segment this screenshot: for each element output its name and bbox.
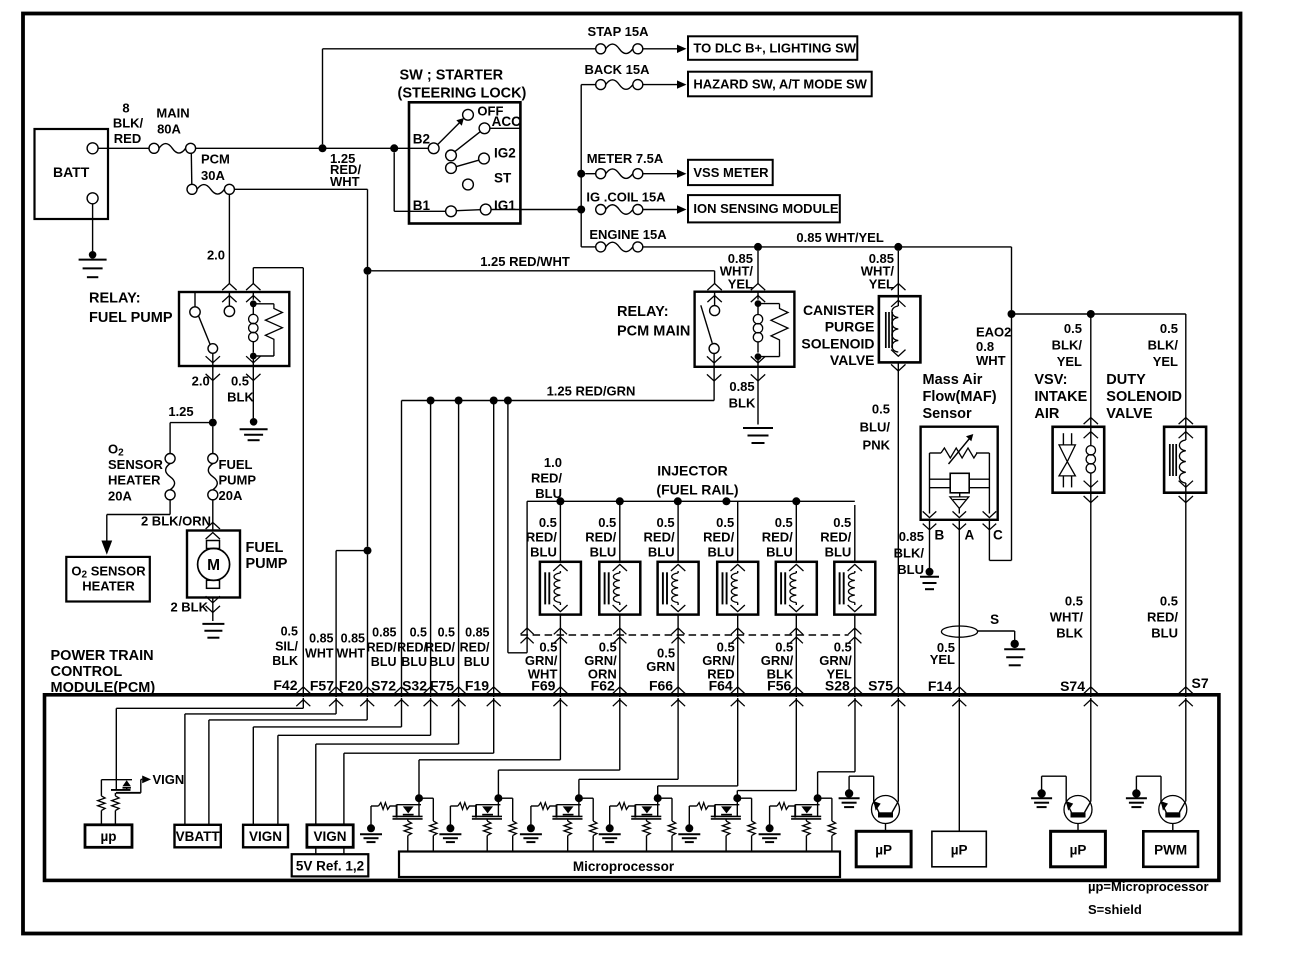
wire F75 to VIGN 2 xyxy=(458,698,460,744)
wire injector 4 feed xyxy=(737,501,739,562)
S7 output transistor base wire xyxy=(1172,824,1174,832)
VSV valve symbol xyxy=(1062,433,1064,445)
fuse BACK 15A xyxy=(581,84,596,86)
ground PCM MAIN relay xyxy=(743,427,773,429)
wire shield to ground xyxy=(978,630,1015,632)
box VBATT xyxy=(175,825,221,848)
svg-text:WHT: WHT xyxy=(305,647,334,661)
wire injector 5 feed xyxy=(795,501,797,562)
fuse METER 7.5A xyxy=(585,173,596,175)
node injector rail xyxy=(556,497,564,505)
node B1 branch xyxy=(390,144,398,152)
wire injector 6 to PCM xyxy=(854,615,856,697)
svg-text:Mass Air: Mass Air xyxy=(923,372,983,388)
wire to PCM MAIN relay coil xyxy=(757,251,759,284)
svg-text:RED/: RED/ xyxy=(526,530,557,545)
box Microprocessor xyxy=(399,852,840,878)
fuse PCM 30A xyxy=(187,184,197,194)
svg-text:RED/: RED/ xyxy=(820,530,851,545)
svg-text:VIGN: VIGN xyxy=(249,829,282,844)
relay switch common contact xyxy=(228,292,230,306)
svg-text:2.0: 2.0 xyxy=(192,374,210,389)
S75 output transistor base wire xyxy=(885,824,887,832)
svg-text:WHT: WHT xyxy=(976,353,1006,368)
node S32 dropper xyxy=(427,397,435,405)
svg-text:RELAY:: RELAY: xyxy=(89,291,141,307)
wire canister to S75 0.5 BLU/PNK xyxy=(897,362,899,697)
svg-text:FUEL: FUEL xyxy=(246,540,284,556)
svg-text:SOLENOID: SOLENOID xyxy=(1106,389,1182,405)
svg-text:20A: 20A xyxy=(108,489,132,504)
wire relay coil to ground xyxy=(252,366,254,418)
wire 1.0 RED/BLU rail feed xyxy=(507,401,509,653)
svg-text:S74: S74 xyxy=(1060,678,1085,694)
svg-text:µp=Microprocessor: µp=Microprocessor xyxy=(1088,879,1209,894)
svg-text:PNK: PNK xyxy=(863,438,891,453)
wire F19 dropper xyxy=(493,401,495,698)
svg-text:0.5: 0.5 xyxy=(410,626,427,640)
MAF sensor box xyxy=(921,427,998,520)
wire S28 to injector driver 6 xyxy=(854,698,856,772)
wire to STAP fuse xyxy=(322,49,324,145)
svg-text:DUTY: DUTY xyxy=(1106,372,1146,388)
svg-text:IG .COIL 15A: IG .COIL 15A xyxy=(586,190,666,205)
svg-text:WHT: WHT xyxy=(337,647,366,661)
svg-text:EAO2: EAO2 xyxy=(976,325,1011,340)
svg-text:20A: 20A xyxy=(219,488,243,503)
PCM connector chevrons xyxy=(296,687,310,694)
supply transistor bars xyxy=(111,789,131,791)
svg-text:WHT: WHT xyxy=(330,174,360,189)
blade to IG2 xyxy=(456,160,478,166)
source resistor driver 2 xyxy=(486,819,488,821)
VSV box xyxy=(1053,427,1105,493)
svg-text:IG1: IG1 xyxy=(494,198,516,213)
arrow to O2 sensor heater xyxy=(101,541,112,555)
svg-text:0.5: 0.5 xyxy=(1064,321,1082,336)
wire injector 3 to PCM xyxy=(677,615,679,697)
svg-text:ACC: ACC xyxy=(492,114,521,129)
svg-text:BLU: BLU xyxy=(648,544,675,559)
wire BATT to MAIN fuse, 8 BLK/RED xyxy=(98,147,149,149)
svg-text:µP: µP xyxy=(875,843,892,858)
svg-text:8: 8 xyxy=(122,101,129,116)
wire MAIN fuse to PCM fuse xyxy=(190,153,193,185)
svg-text:Microprocessor: Microprocessor xyxy=(573,859,675,874)
MOSFET Q4 body xyxy=(635,804,659,806)
svg-text:YEL: YEL xyxy=(869,276,894,291)
DUTY solenoid internals xyxy=(1169,444,1171,476)
MAF sensing element box xyxy=(950,473,969,493)
gate resistor driver 2 xyxy=(450,805,458,807)
svg-text:POWER TRAIN: POWER TRAIN xyxy=(51,648,154,664)
relay switch output contact xyxy=(208,344,218,354)
svg-text:TO DLC B+, LIGHTING SW: TO DLC B+, LIGHTING SW xyxy=(693,40,856,55)
svg-text:0.5: 0.5 xyxy=(716,515,734,530)
wire F56 to injector driver 5 xyxy=(795,698,797,791)
fuse ENGINE 15A xyxy=(581,246,596,248)
wire MAF pin B to ground 0.85 BLK/BLU xyxy=(929,520,931,568)
svg-text:WHT/: WHT/ xyxy=(1050,610,1084,625)
svg-text:MAIN: MAIN xyxy=(156,106,189,121)
svg-text:BLK: BLK xyxy=(272,654,298,668)
wire injector 2 to PCM xyxy=(619,615,621,697)
injector driver MOSFET Q2 xyxy=(494,794,502,802)
svg-text:RED/: RED/ xyxy=(531,471,562,486)
fuel pump motor box xyxy=(187,531,240,598)
svg-text:µP: µP xyxy=(1070,843,1087,858)
chevrons injector 5 at rail boundary xyxy=(790,628,803,634)
wire S7 into PCM xyxy=(1185,698,1187,801)
svg-text:VALVE: VALVE xyxy=(1106,406,1153,422)
battery BATT xyxy=(35,129,109,219)
contact B1 xyxy=(446,206,457,217)
svg-text:1.0: 1.0 xyxy=(544,455,562,470)
svg-text:BLU/: BLU/ xyxy=(860,420,891,435)
wire BACK to arrow xyxy=(642,84,677,86)
gate resistor driver 5 xyxy=(689,805,697,807)
svg-text:RED/: RED/ xyxy=(644,530,675,545)
wire F66 to injector driver 3 xyxy=(677,698,679,779)
wire PCM fuse to RED/WHT corner xyxy=(234,188,368,190)
relay coil xyxy=(252,292,254,300)
ground driver 1 xyxy=(370,806,372,825)
S7 output transistor emitter ground xyxy=(1160,776,1162,802)
wire F42 to microprocessor driver xyxy=(302,698,304,708)
svg-text:0.5: 0.5 xyxy=(872,402,890,417)
svg-text:BLU: BLU xyxy=(707,544,734,559)
wires VIGN2 to 5V Ref xyxy=(315,847,317,854)
chevrons PCM MAIN relay bottom xyxy=(707,356,721,363)
S74 output transistor xyxy=(1064,796,1092,824)
ground at battery xyxy=(89,251,97,259)
node IG COIL branch xyxy=(577,206,585,214)
node EAO2 junction xyxy=(1008,310,1016,318)
svg-text:30A: 30A xyxy=(201,168,225,183)
wire 2.0 PCM fuse to fuel pump relay xyxy=(228,194,230,284)
MOSFET Q3 body xyxy=(557,804,581,806)
svg-text:BLK/: BLK/ xyxy=(1148,338,1179,353)
svg-text:BLU: BLU xyxy=(590,544,617,559)
svg-text:VALVE: VALVE xyxy=(830,352,875,368)
box VIGN 2 xyxy=(307,825,353,848)
svg-text:HAZARD SW, A/T MODE SW: HAZARD SW, A/T MODE SW xyxy=(693,77,867,92)
wire F75 dropper xyxy=(458,401,460,698)
wire relay coil to ground 0.85 BLK xyxy=(757,367,759,425)
pull resistor driver 1 xyxy=(430,821,437,836)
svg-text:F62: F62 xyxy=(591,678,615,694)
node fuel feed junction xyxy=(209,419,217,427)
svg-text:BLU: BLU xyxy=(897,562,924,577)
svg-text:0.5: 0.5 xyxy=(598,515,616,530)
svg-text:F56: F56 xyxy=(767,678,791,694)
diode in supply circuit xyxy=(123,780,131,786)
wire METER to arrow xyxy=(642,173,677,175)
node injector rail feed xyxy=(504,397,512,405)
injector 3 box xyxy=(658,562,699,615)
wire IG COIL to arrow xyxy=(642,209,677,211)
wire S75 into PCM xyxy=(897,698,899,801)
PCM MAIN relay switch xyxy=(714,292,716,306)
svg-text:0.85: 0.85 xyxy=(899,529,924,544)
node 1.25 RED/WHT junction xyxy=(364,267,372,275)
svg-text:1.25: 1.25 xyxy=(168,404,193,419)
wire F20 to VBATT xyxy=(366,698,368,720)
svg-text:YEL: YEL xyxy=(1057,354,1082,369)
svg-text:BLU: BLU xyxy=(825,544,852,559)
svg-text:PWM: PWM xyxy=(1154,843,1187,858)
chevrons injector 3 at rail boundary xyxy=(672,628,685,634)
svg-text:CANISTER: CANISTER xyxy=(803,302,875,318)
motor brush top xyxy=(207,541,220,549)
svg-text:2 BLK/ORN: 2 BLK/ORN xyxy=(141,514,211,529)
wire DUTY to S7 0.5 RED/BLU xyxy=(1185,493,1187,697)
S75 output transistor xyxy=(872,796,900,824)
svg-text:1.25 RED/GRN: 1.25 RED/GRN xyxy=(547,384,636,399)
S74 output transistor base wire xyxy=(1077,824,1079,832)
gate resistor driver 3 xyxy=(531,805,539,807)
svg-text:BLU: BLU xyxy=(530,544,557,559)
node PCM MAIN relay branch xyxy=(754,243,762,251)
wire to DUTY solenoid xyxy=(1185,314,1187,427)
injector 4 internals xyxy=(731,564,745,571)
svg-text:0.5: 0.5 xyxy=(833,515,851,530)
wire injector 1 feed xyxy=(559,501,561,562)
wire injector 4 to PCM xyxy=(737,615,739,697)
svg-text:BLU: BLU xyxy=(464,655,490,669)
node injector rail xyxy=(792,497,800,505)
svg-text:RED/: RED/ xyxy=(367,640,397,654)
gate resistor driver 6 xyxy=(770,805,778,807)
gate resistor driver 1 xyxy=(371,805,379,807)
pull resistor driver 3 xyxy=(590,821,597,836)
node VSV branch xyxy=(1087,310,1095,318)
contact IG2 xyxy=(479,153,490,164)
svg-text:B: B xyxy=(935,528,945,543)
svg-text:INJECTOR: INJECTOR xyxy=(657,463,728,479)
svg-text:0.5: 0.5 xyxy=(1160,321,1178,336)
pull resistor driver 6 xyxy=(828,821,835,836)
fuse STAP 15A xyxy=(596,44,606,54)
wire 1.25 RED/WHT to PCM MAIN relay xyxy=(372,270,715,272)
svg-text:METER 7.5A: METER 7.5A xyxy=(587,151,664,166)
injector driver MOSFET Q1 xyxy=(415,794,423,802)
svg-text:0.5: 0.5 xyxy=(1160,594,1178,609)
svg-text:YEL: YEL xyxy=(930,652,955,667)
dashed fuel-rail boundary line xyxy=(521,634,849,636)
wire EAO2 vertical xyxy=(1011,314,1013,560)
wire injector rail bus xyxy=(527,500,855,502)
svg-text:0.5: 0.5 xyxy=(231,374,249,389)
fuse FUEL PUMP 20A xyxy=(208,454,218,464)
node METER branch xyxy=(577,170,585,178)
chevrons PCM MAIN relay top xyxy=(707,284,721,291)
svg-text:RED: RED xyxy=(114,131,141,146)
MAF internal rails xyxy=(930,452,942,454)
BATT negative terminal xyxy=(87,193,98,204)
svg-text:C: C xyxy=(993,528,1003,543)
svg-text:F64: F64 xyxy=(709,678,733,694)
injector driver MOSFET Q6 xyxy=(814,794,822,802)
svg-text:RELAY:: RELAY: xyxy=(617,304,669,320)
svg-text:80A: 80A xyxy=(157,122,181,137)
svg-text:CONTROL: CONTROL xyxy=(51,664,123,680)
wire motor to ground 2 BLK xyxy=(212,598,214,622)
svg-text:YEL: YEL xyxy=(1153,354,1178,369)
POWER TRAIN CONTROL MODULE (PCM) box xyxy=(45,695,1219,881)
pull resistor driver 4 xyxy=(668,821,675,836)
box O2 SENSOR HEATER xyxy=(66,557,150,602)
svg-text:BACK 15A: BACK 15A xyxy=(584,62,650,77)
svg-text:BLU: BLU xyxy=(1151,626,1178,641)
supply circuit resistor 2 xyxy=(114,793,116,796)
chevrons injector 2 at rail boundary xyxy=(613,628,626,634)
svg-text:FUEL: FUEL xyxy=(219,457,253,472)
box microprocessor uP xyxy=(85,825,132,848)
box VIGN 1 xyxy=(243,825,288,848)
svg-text:0.5: 0.5 xyxy=(539,515,557,530)
svg-text:S: S xyxy=(990,612,999,627)
ground driver 2 xyxy=(449,806,451,825)
svg-text:BLK/: BLK/ xyxy=(894,545,925,560)
ground driver 4 xyxy=(609,806,611,825)
svg-text:F20: F20 xyxy=(339,678,363,694)
svg-text:2.0: 2.0 xyxy=(207,248,225,263)
svg-text:BATT: BATT xyxy=(53,164,90,180)
svg-text:0.85: 0.85 xyxy=(341,632,365,646)
injector 2 internals xyxy=(613,564,627,571)
svg-text:F66: F66 xyxy=(649,678,673,694)
svg-text:F14: F14 xyxy=(928,678,952,694)
wire MAF pin A to F14 0.5 YEL xyxy=(958,520,960,697)
svg-text:M: M xyxy=(207,557,220,574)
svg-text:µP: µP xyxy=(951,843,968,858)
injector 2 box xyxy=(599,562,640,615)
contact ST xyxy=(463,179,474,190)
canister purge solenoid valve box xyxy=(879,296,921,362)
box uP 2 xyxy=(932,831,986,867)
wire fuel pump relay coil to F42 xyxy=(252,268,254,284)
box TO DLC B+, LIGHTING SW xyxy=(688,36,857,60)
wire injector 1 to PCM xyxy=(559,615,561,697)
svg-text:RED/: RED/ xyxy=(703,530,734,545)
relay: PCM MAIN box xyxy=(695,292,795,367)
movable contact 3 xyxy=(446,163,457,174)
injector 1 box xyxy=(540,562,581,615)
contact ACC xyxy=(479,123,490,134)
box PWM xyxy=(1143,831,1198,867)
relay switch blade xyxy=(199,316,211,344)
MAF resistor arrow xyxy=(949,439,970,465)
svg-text:BLK: BLK xyxy=(1056,626,1083,641)
S74 output transistor emitter ground xyxy=(1065,776,1067,802)
pull resistor driver 2 xyxy=(509,821,516,836)
box 5V Ref. 1,2 xyxy=(292,854,369,876)
svg-text:F19: F19 xyxy=(465,678,489,694)
shield ellipse xyxy=(941,626,977,637)
relay: FUEL PUMP box xyxy=(179,292,289,366)
chevrons injector 1 at rail boundary xyxy=(554,628,567,634)
svg-text:F57: F57 xyxy=(310,678,334,694)
fuse IG COIL 15A xyxy=(596,205,606,215)
wire S74 into PCM xyxy=(1090,698,1092,801)
wire to canister purge solenoid xyxy=(897,251,899,296)
ground fuel pump relay coil xyxy=(250,418,258,426)
wire S72 dropper xyxy=(401,401,403,698)
ground shield xyxy=(1011,640,1019,648)
svg-text:ST: ST xyxy=(494,171,512,186)
svg-text:S7: S7 xyxy=(1192,675,1209,691)
wire fuse bus vertical xyxy=(580,85,582,247)
wire IG1 to fuse bus xyxy=(491,209,581,211)
contact IG1 xyxy=(480,204,491,215)
wire injector 6 feed xyxy=(854,505,856,562)
svg-text:SOLENOID: SOLENOID xyxy=(801,335,874,351)
svg-text:(FUEL RAIL): (FUEL RAIL) xyxy=(656,482,738,498)
svg-text:0.85 WHT/YEL: 0.85 WHT/YEL xyxy=(796,230,883,245)
wire to B1 xyxy=(393,152,395,211)
wire EAO2 horizontal xyxy=(1012,313,1186,315)
source resistor driver 4 xyxy=(646,819,648,821)
source resistor driver 1 xyxy=(407,819,409,821)
VSV coil xyxy=(1084,418,1098,425)
VIGN gate arrow xyxy=(140,779,142,792)
ground driver 5 xyxy=(688,806,690,825)
injector 5 box xyxy=(776,562,817,615)
box uP 1 xyxy=(856,831,911,867)
svg-text:Flow(MAF): Flow(MAF) xyxy=(923,389,997,405)
switch box SW STARTER xyxy=(409,102,520,223)
PCM MAIN relay coil xyxy=(757,292,759,300)
motor brush bottom xyxy=(207,580,220,588)
node injector rail xyxy=(616,497,624,505)
svg-text:VBATT: VBATT xyxy=(176,829,221,844)
wire F57 to VBATT xyxy=(335,698,337,714)
MOSFET Q1 body xyxy=(397,804,421,806)
svg-text:0.5: 0.5 xyxy=(1065,594,1083,609)
wire F19 to VIGN 2 xyxy=(493,698,495,753)
microprocessor supply transistor circuit xyxy=(101,779,132,781)
wire ACC to box edge xyxy=(490,127,520,129)
wire to fuel pump fuse xyxy=(212,427,214,454)
svg-text:BLK/: BLK/ xyxy=(113,116,144,131)
wire S32 dropper xyxy=(430,401,432,698)
wire 0.85 WHT/YEL bus xyxy=(642,246,1011,248)
injector 6 box xyxy=(834,562,875,615)
wire VSV to S74 0.5 WHT/BLK xyxy=(1090,493,1092,697)
svg-text:S=shield: S=shield xyxy=(1088,902,1142,917)
svg-text:0.5: 0.5 xyxy=(281,625,298,639)
canister solenoid internals xyxy=(885,312,887,348)
wire injector 5 to PCM xyxy=(795,615,797,697)
wire EAO2 corner down xyxy=(1011,247,1013,310)
svg-text:ION SENSING MODULE: ION SENSING MODULE xyxy=(693,201,839,216)
contact B2 xyxy=(428,143,439,154)
ground fuel pump xyxy=(202,623,224,625)
source resistor driver 3 xyxy=(567,819,569,821)
svg-text:0.85: 0.85 xyxy=(465,626,489,640)
node F57/F20 junction xyxy=(364,547,372,555)
svg-text:PURGE: PURGE xyxy=(825,319,875,335)
wire injector 2 feed xyxy=(619,501,621,562)
svg-text:0.5: 0.5 xyxy=(657,515,675,530)
svg-text:0.5: 0.5 xyxy=(438,626,455,640)
svg-text:FUEL PUMP: FUEL PUMP xyxy=(89,310,173,326)
svg-text:RED/: RED/ xyxy=(585,530,616,545)
S75 output transistor emitter ground xyxy=(873,776,875,802)
svg-text:PCM: PCM xyxy=(201,152,230,167)
svg-text:0.85: 0.85 xyxy=(729,379,754,394)
